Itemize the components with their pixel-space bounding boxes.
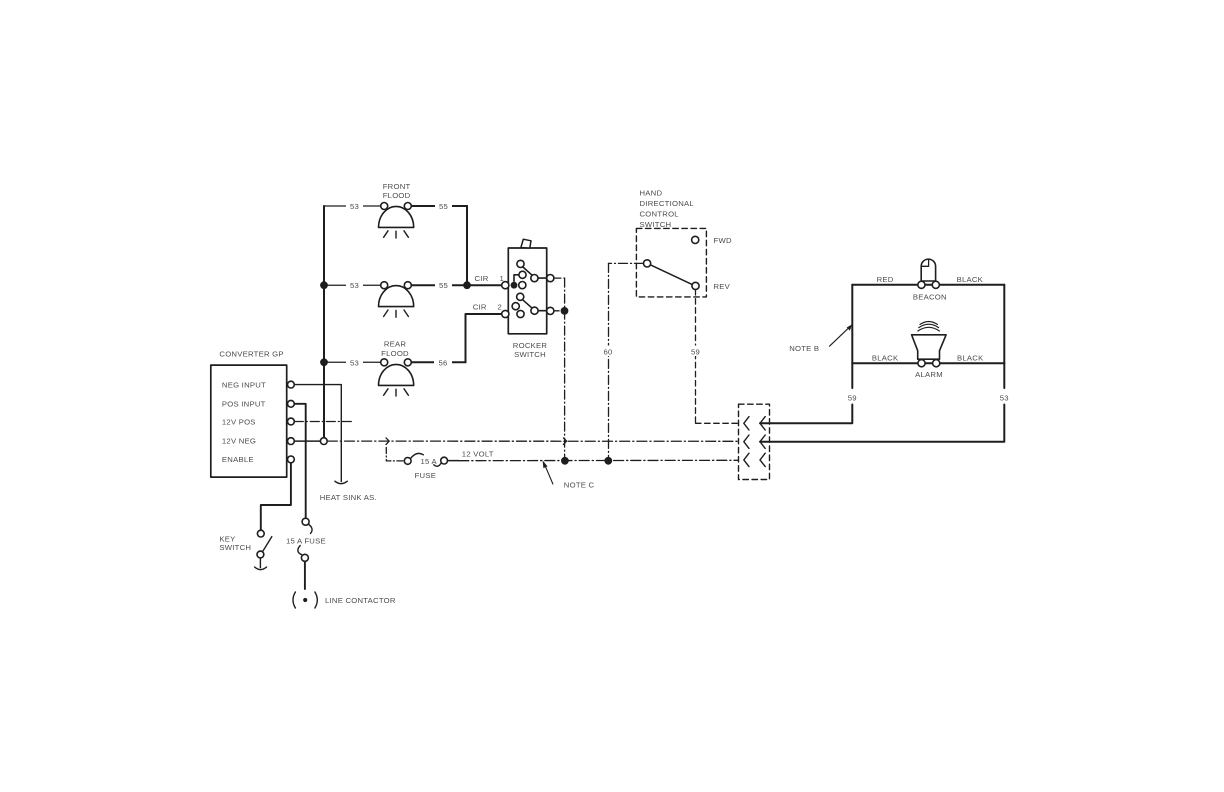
heat sink pigtail [335, 481, 347, 484]
svg-text:15 A: 15 A [421, 457, 438, 466]
wire left flood bus 53 vertical [323, 206, 325, 438]
svg-text:ROCKER: ROCKER [513, 341, 548, 350]
svg-text:RED: RED [877, 275, 894, 284]
svg-text:BEACON: BEACON [913, 293, 947, 302]
hand switch FWD contact [692, 236, 699, 243]
svg-text:BLACK: BLACK [957, 275, 984, 284]
rocker switch U body [508, 248, 546, 334]
label ALARM [915, 370, 943, 379]
svg-text:53: 53 [1000, 393, 1009, 402]
label LINE CONTACTOR [325, 596, 396, 605]
label REAR FLOOD [381, 339, 409, 358]
svg-text:HAND: HAND [640, 189, 663, 198]
label 53 middle [346, 279, 363, 290]
label CONVERTER GP [219, 350, 283, 359]
wire beacon top rail [852, 284, 1004, 286]
svg-text:FUSE: FUSE [415, 471, 437, 480]
svg-text:SWITCH: SWITCH [219, 543, 251, 552]
wire ENABLE to key switch [261, 463, 291, 530]
fuse 15A S-curve lower [298, 546, 302, 555]
svg-text:55: 55 [439, 281, 448, 290]
converter terminal NEG INPUT [288, 381, 295, 388]
svg-text:FWD: FWD [714, 236, 732, 245]
alarm terminals [918, 360, 925, 367]
svg-text:53: 53 [350, 358, 359, 367]
label wire 53 right [1000, 393, 1009, 402]
svg-text:ALARM: ALARM [915, 370, 943, 379]
svg-text:55: 55 [439, 202, 448, 211]
svg-text:CIR: CIR [475, 274, 489, 283]
svg-text:BLACK: BLACK [872, 353, 899, 362]
svg-text:FLOOD: FLOOD [381, 349, 409, 358]
label HEAT SINK AS. [320, 493, 377, 502]
svg-text:CONTROL: CONTROL [640, 209, 680, 218]
wire 59 connector to beacon rail [760, 405, 852, 424]
lamp REAR FLOOD [379, 359, 414, 396]
node junction dot 12 volt / rocker feed [561, 457, 569, 465]
svg-text:DIRECTIONAL: DIRECTIONAL [640, 199, 695, 208]
beacon terminals [918, 281, 925, 288]
svg-text:53: 53 [350, 202, 359, 211]
lamp FRONT FLOOD [379, 203, 414, 239]
label wire 59 right [848, 393, 857, 402]
wire 59 rail upper part [851, 285, 853, 388]
key switch lower pigtail [255, 558, 267, 570]
svg-text:12V POS: 12V POS [222, 417, 256, 426]
fuse 15A bottom contact [301, 554, 308, 561]
label CIR 1 [475, 274, 505, 283]
node junction dot rocker lower right [561, 307, 569, 315]
label 15 A fuse value [421, 457, 438, 466]
wire 12 volt fused line elbow [386, 448, 404, 461]
svg-text:FLOOD: FLOOD [383, 191, 411, 200]
label 55 front [435, 200, 452, 211]
label FWD [714, 236, 732, 245]
wire 53/55 middle flood row to rocker CIR1 [324, 284, 519, 286]
label 12 VOLT [459, 448, 500, 458]
wire 53 rear flood row [324, 361, 466, 363]
label 53 front [346, 200, 363, 211]
fuse 5A left contact [404, 458, 411, 465]
connector row2 chevrons [744, 435, 765, 448]
label CIR 2 [473, 302, 502, 311]
wire 56 up to rocker CIR2 [466, 314, 518, 362]
svg-text:HEAT SINK AS.: HEAT SINK AS. [320, 493, 377, 502]
node open circle bus to 12V NEG line [320, 438, 327, 445]
svg-text:ENABLE: ENABLE [222, 455, 254, 464]
connector bulkhead dashed box [739, 404, 770, 479]
svg-text:NEG INPUT: NEG INPUT [222, 381, 266, 390]
svg-text:60: 60 [603, 347, 612, 356]
hand switch common contact [644, 260, 651, 267]
fuse 5A S-curve [410, 453, 441, 466]
label ENABLE [222, 455, 254, 464]
svg-text:56: 56 [438, 358, 447, 367]
connector row1 chevrons [744, 417, 765, 430]
hand switch REV contact [692, 282, 699, 289]
key switch lever [263, 537, 272, 552]
label BLACK alarm left [872, 353, 899, 362]
beacon body [921, 259, 935, 281]
label POS INPUT [222, 400, 266, 409]
line contactor symbol [293, 592, 317, 608]
wire 53 front flood top [324, 205, 467, 207]
wire front flood 55 down to CIR1 node [466, 206, 468, 281]
hand switch lever [651, 265, 693, 285]
node junction dot bus/rear flood [320, 358, 328, 366]
wire 60 hand switch common to 12 volt line (dash-dot) [609, 263, 644, 456]
label KEY SWITCH [219, 534, 251, 552]
converter gp box [211, 365, 287, 477]
alarm sound arcs [918, 322, 940, 332]
label 56 rear [434, 356, 452, 367]
label 12V POS [222, 417, 256, 426]
hand directional control switch dashed box [636, 228, 706, 297]
fuse 15A S-curve upper [308, 524, 312, 534]
svg-text:SWITCH: SWITCH [514, 350, 546, 359]
wire rocker right terminals to 12 volt line (dash-dot) [554, 278, 565, 457]
label wire 60 [601, 346, 616, 357]
wire 12V POS dash-dot stub [294, 421, 353, 423]
converter terminal POS INPUT [288, 400, 295, 407]
svg-text:REAR: REAR [384, 339, 407, 348]
svg-text:15 A FUSE: 15 A FUSE [286, 536, 326, 545]
note b leader arrow [830, 324, 853, 346]
label REV [714, 282, 731, 291]
connector chevron on 12V NEG line at 566 [563, 438, 566, 445]
label ROCKER SWITCH [513, 341, 548, 359]
label 15 A FUSE [286, 536, 326, 545]
label NOTE B [789, 344, 819, 353]
lamp middle FLOOD [379, 282, 414, 318]
svg-text:LINE CONTACTOR: LINE CONTACTOR [325, 596, 396, 605]
label 53 rear [346, 356, 363, 367]
rocker switch internal contacts CIR1 [502, 260, 554, 289]
label FUSE [415, 471, 437, 480]
wire 12 volt line to connector row3 (dash-dot) [448, 459, 739, 461]
alarm horn body [912, 335, 947, 359]
fuse 15A vertical top contact [302, 518, 309, 525]
svg-text:NOTE C: NOTE C [564, 480, 595, 489]
wire 53 rail upper part [1003, 285, 1005, 388]
wire NEG INPUT to heat sink [294, 385, 341, 482]
svg-text:53: 53 [350, 281, 359, 290]
svg-text:12 VOLT: 12 VOLT [462, 449, 494, 458]
wire POS INPUT down to 15A fuse [294, 404, 305, 518]
svg-text:12V NEG: 12V NEG [222, 436, 256, 445]
wire 53 connector to right rail [760, 405, 1004, 442]
svg-text:CONVERTER GP: CONVERTER GP [219, 350, 283, 359]
label NEG INPUT [222, 381, 266, 390]
converter terminal ENABLE [288, 456, 295, 463]
rocker switch internal contacts CIR2 [502, 293, 554, 317]
svg-text:REV: REV [714, 282, 731, 291]
node junction dot CIR1 [463, 281, 471, 289]
svg-text:59: 59 [691, 347, 700, 356]
svg-text:FRONT: FRONT [383, 182, 411, 191]
converter terminal 12V POS [288, 418, 295, 425]
svg-text:CIR: CIR [473, 302, 487, 311]
wire 59 REV to connector (dashed) [696, 290, 739, 424]
key switch top contact [257, 530, 264, 537]
converter terminal 12V NEG [288, 438, 295, 445]
svg-text:59: 59 [848, 393, 857, 402]
label BLACK beacon right [957, 275, 984, 284]
label FRONT FLOOD [383, 182, 411, 200]
wire alarm row [852, 362, 1004, 364]
rocker switch actuator tab [521, 239, 531, 248]
svg-text:2: 2 [498, 302, 503, 311]
node junction dot 12 volt / wire 60 [604, 457, 612, 465]
label 55 middle [435, 279, 452, 290]
svg-text:NOTE B: NOTE B [789, 344, 819, 353]
key switch bottom contact [257, 551, 264, 558]
label BEACON [913, 293, 947, 302]
svg-text:BLACK: BLACK [957, 353, 984, 362]
wire 12V NEG main line (dash-dot) [294, 440, 738, 442]
fuse 5A right contact [441, 457, 448, 464]
label BLACK alarm right [957, 353, 984, 362]
node junction dot bus/middle flood [320, 281, 328, 289]
label NOTE C [564, 480, 595, 489]
svg-text:POS INPUT: POS INPUT [222, 400, 266, 409]
connector chevron on 12V NEG line at 389 [386, 438, 389, 445]
label RED [877, 275, 894, 284]
label HAND DIRECTIONAL CONTROL SWITCH [640, 189, 695, 229]
svg-text:SWITCH: SWITCH [640, 220, 672, 229]
label wire 59 [688, 346, 703, 357]
connector row3 chevrons [744, 453, 765, 466]
note c leader arrow [543, 460, 553, 484]
label 12V NEG [222, 436, 256, 445]
wire fuse to line contactor [304, 561, 306, 589]
